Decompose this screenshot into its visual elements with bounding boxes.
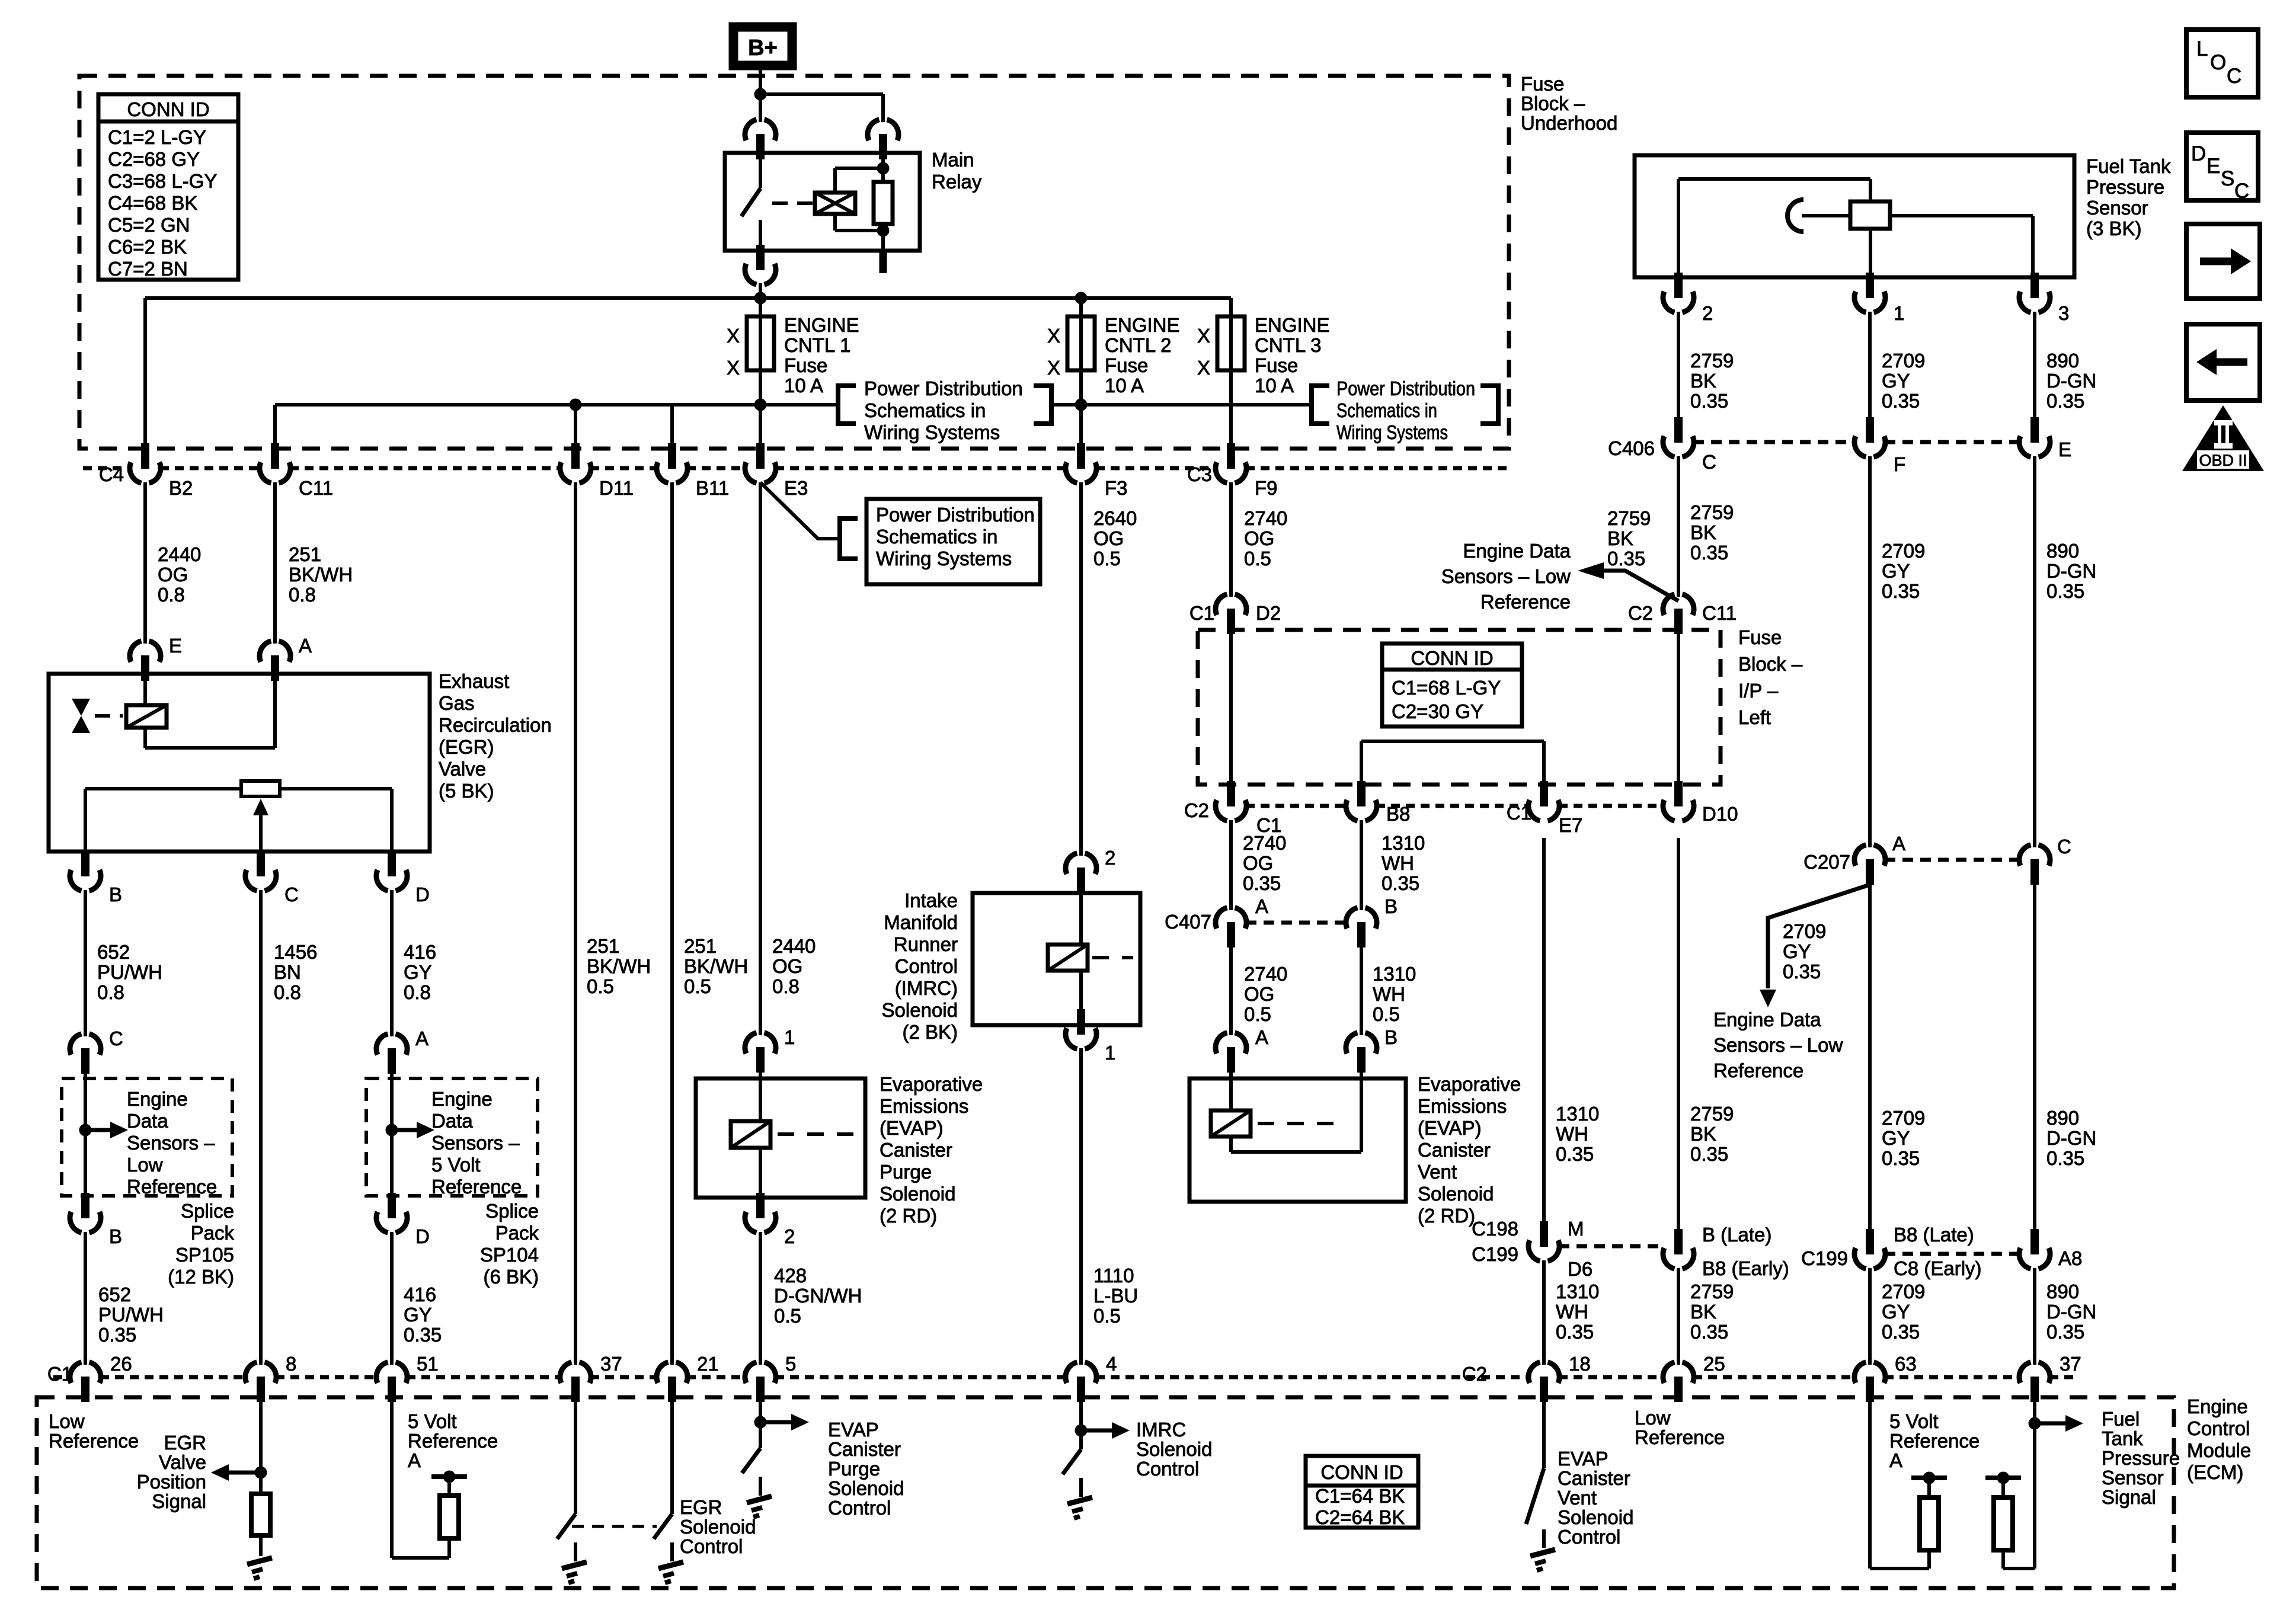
svg-text:D6: D6	[1568, 1258, 1593, 1280]
EGR valve box	[49, 674, 430, 852]
svg-text:C3=68 L-GY: C3=68 L-GY	[108, 170, 217, 192]
junction dot coil top	[877, 162, 890, 175]
svg-text:C: C	[284, 884, 299, 905]
relay pin bar below left	[757, 251, 765, 268]
svg-text:26: 26	[110, 1353, 132, 1375]
svg-text:X: X	[1197, 357, 1210, 379]
ECM resistor top bar (pin 37R)	[2001, 1478, 2005, 1497]
switch EGR solenoid control (21)	[654, 1514, 672, 1539]
svg-text:OG: OG	[158, 564, 188, 585]
fuse block - underhood (dashed outline)	[79, 76, 1509, 449]
wire through splice SP105	[84, 1071, 87, 1196]
junction dot coil bottom	[877, 225, 890, 237]
svg-text:C: C	[2234, 180, 2249, 203]
svg-text:BK: BK	[1690, 1301, 1716, 1323]
wire 1310 WH 0.35 (E7 down)	[1542, 838, 1546, 1224]
wire 2440 OG 0.8	[143, 482, 147, 644]
svg-text:0.35: 0.35	[2046, 390, 2084, 412]
svg-text:0.35: 0.35	[1690, 1143, 1728, 1165]
ground (pin 8)	[247, 1558, 272, 1579]
C406 dashed link	[1693, 440, 1855, 444]
svg-text:Fuse: Fuse	[1255, 354, 1298, 376]
ECM resistor (pin 37R)	[1994, 1497, 2013, 1550]
C199 dashed link	[1885, 1252, 2020, 1256]
svg-text:WH: WH	[1373, 983, 1405, 1005]
svg-text:Valve: Valve	[439, 758, 486, 780]
connector row line (underhood)	[83, 466, 130, 470]
svg-text:C4=68 BK: C4=68 BK	[108, 192, 197, 214]
svg-text:21: 21	[697, 1353, 719, 1375]
connector ECM pin 37 (left)	[560, 1362, 591, 1402]
svg-text:A: A	[1255, 895, 1268, 917]
svg-text:0.35: 0.35	[1882, 1147, 1920, 1169]
fuel tank pressure sensor box	[1635, 155, 2074, 277]
svg-text:B8 (Early): B8 (Early)	[1702, 1257, 1789, 1279]
svg-text:B+: B+	[748, 36, 778, 60]
vent solenoid dashed link	[1258, 1122, 1344, 1125]
C207 dashed link	[1885, 858, 2020, 862]
svg-text:X: X	[1047, 357, 1060, 379]
fuse F3 ENGINE CNTL 3	[1229, 298, 1233, 405]
connector C406 pin C	[1663, 417, 1694, 457]
svg-text:Engine Data: Engine Data	[1463, 540, 1571, 562]
svg-text:0.5: 0.5	[684, 975, 711, 997]
connector pin D (EGR)	[376, 851, 407, 891]
purge solenoid dashed link	[778, 1132, 864, 1136]
sensor internal top wire	[1678, 177, 1870, 181]
svg-text:Fuse: Fuse	[1738, 626, 1782, 648]
connector C407 pin B	[1346, 908, 1377, 948]
svg-text:Fuse: Fuse	[1105, 354, 1148, 376]
svg-text:PU/WH: PU/WH	[98, 1304, 164, 1326]
svg-text:C1=2 L-GY: C1=2 L-GY	[108, 126, 206, 148]
svg-text:Underhood: Underhood	[1521, 112, 1617, 134]
callout bracket (E3)	[840, 518, 858, 559]
legend box DESC	[2186, 133, 2258, 200]
svg-text:E7: E7	[1559, 814, 1582, 836]
svg-text:EGR: EGR	[164, 1432, 206, 1454]
svg-text:416: 416	[404, 941, 436, 963]
svg-text:A: A	[408, 1449, 421, 1471]
svg-text:D-GN: D-GN	[2046, 1127, 2096, 1149]
svg-text:BK/WH: BK/WH	[289, 564, 353, 585]
connector cup relay output	[745, 245, 776, 284]
svg-text:Fuse: Fuse	[1521, 73, 1564, 95]
upper supply bus	[145, 296, 1231, 300]
svg-text:Reference: Reference	[1889, 1430, 1980, 1452]
arrow IMRC control	[1081, 1429, 1113, 1433]
connector pin B (splice SP105 out)	[70, 1193, 101, 1233]
svg-text:Main: Main	[932, 149, 974, 171]
svg-text:652: 652	[97, 941, 130, 963]
svg-text:0.5: 0.5	[1244, 1003, 1271, 1025]
svg-text:A8: A8	[2058, 1247, 2082, 1269]
svg-text:Splice: Splice	[181, 1200, 234, 1222]
wire D2 through I/P	[1229, 632, 1233, 785]
svg-text:2740: 2740	[1244, 507, 1287, 529]
svg-text:37: 37	[2060, 1353, 2081, 1375]
wire 1310 WH 0.35 (to ECM 18)	[1542, 1260, 1546, 1365]
svg-text:2759: 2759	[1690, 1103, 1734, 1125]
svg-text:5 Volt: 5 Volt	[408, 1410, 457, 1432]
svg-text:C1=64 BK: C1=64 BK	[1315, 1485, 1405, 1507]
connector sensor pin 3	[2019, 273, 2050, 312]
connector C2 pin C1 (ip)	[1216, 781, 1246, 821]
connector IMRC pin 1	[1066, 1009, 1096, 1049]
switch EVAP purge (pin 5)	[742, 1448, 760, 1473]
connector C2 pin C11	[1663, 594, 1694, 634]
relay right internal wire	[881, 153, 885, 182]
EGR solenoid element	[126, 705, 167, 728]
svg-text:Low: Low	[1635, 1407, 1671, 1429]
svg-text:GY: GY	[1882, 1301, 1910, 1323]
connector ECM pin 51	[376, 1362, 407, 1402]
svg-text:0.35: 0.35	[1607, 548, 1645, 569]
wire relay output to bus	[759, 283, 762, 316]
svg-text:2709: 2709	[1882, 540, 1925, 562]
svg-text:GY: GY	[1882, 1127, 1910, 1149]
connector pin C (splice SP105)	[70, 1034, 101, 1074]
wire 652 PU/WH 0.35	[84, 1232, 87, 1365]
svg-text:B: B	[1384, 895, 1398, 917]
connector C199 pin A8	[2019, 1229, 2050, 1269]
IMRC solenoid element	[1079, 891, 1083, 945]
svg-text:251: 251	[684, 935, 717, 957]
svg-text:0.35: 0.35	[1882, 1321, 1920, 1343]
connector C1 pin 26	[70, 1362, 101, 1402]
svg-text:(6 BK): (6 BK)	[483, 1266, 539, 1288]
CONN ID table (I/P)	[1382, 644, 1522, 726]
svg-text:Signal: Signal	[152, 1490, 206, 1512]
connector pin D10 (ip)	[1663, 781, 1694, 821]
EVAP vent solenoid box	[1189, 1078, 1406, 1202]
svg-text:L-BU: L-BU	[1093, 1285, 1138, 1307]
callout bracket left (fuse3)	[1312, 386, 1329, 424]
svg-text:1310: 1310	[1373, 963, 1416, 985]
svg-text:4: 4	[1106, 1353, 1117, 1375]
connector C3 pin F9	[1216, 443, 1246, 483]
svg-text:C5=2 GN: C5=2 GN	[108, 214, 190, 236]
connector C4 pin B2	[130, 443, 161, 483]
svg-text:0.8: 0.8	[772, 975, 800, 997]
svg-text:Sensors –: Sensors –	[431, 1132, 520, 1154]
svg-text:37: 37	[600, 1353, 622, 1375]
svg-text:Intake: Intake	[904, 889, 958, 911]
svg-text:Recirculation: Recirculation	[439, 714, 552, 736]
connector C2 pin 18	[1528, 1362, 1559, 1402]
wire 890 D-GN 0.35 (C down)	[2033, 885, 2036, 1232]
svg-text:890: 890	[2046, 540, 2079, 562]
svg-text:C1: C1	[1189, 602, 1214, 624]
ECM resistor top bar (pin 63)	[1927, 1478, 1931, 1497]
svg-text:Schematics in: Schematics in	[876, 526, 997, 548]
svg-text:Control: Control	[828, 1497, 891, 1519]
wire C11 drop	[273, 405, 277, 446]
svg-text:BN: BN	[274, 961, 301, 983]
svg-text:C2=68 GY: C2=68 GY	[108, 148, 200, 170]
wire 2740 OG 0.5 (below C407)	[1229, 944, 1233, 1035]
svg-text:GY: GY	[1783, 940, 1811, 962]
svg-text:Pack: Pack	[191, 1222, 235, 1244]
svg-text:Solenoid: Solenoid	[680, 1516, 756, 1538]
callout line from E3	[760, 482, 840, 539]
svg-text:Engine: Engine	[127, 1088, 188, 1110]
svg-text:0.35: 0.35	[98, 1324, 136, 1346]
svg-text:E: E	[2058, 438, 2071, 460]
svg-text:C198: C198	[1472, 1218, 1518, 1240]
connector sensor pin 1	[1854, 273, 1885, 312]
svg-text:D-GN: D-GN	[2046, 1301, 2096, 1323]
legend box LOC	[2186, 30, 2258, 97]
svg-text:Power Distribution: Power Distribution	[876, 504, 1035, 526]
svg-text:0.5: 0.5	[1093, 1305, 1121, 1327]
svg-text:Engine: Engine	[2187, 1395, 2248, 1417]
svg-text:5 Volt: 5 Volt	[431, 1154, 481, 1176]
svg-text:Control: Control	[680, 1535, 743, 1557]
svg-text:890: 890	[2046, 1107, 2079, 1129]
wire 2709 GY 0.35 (A down)	[1868, 885, 1872, 1232]
svg-text:2759: 2759	[1690, 350, 1734, 372]
svg-text:BK: BK	[1607, 527, 1633, 549]
svg-text:0.35: 0.35	[1382, 872, 1419, 894]
wire ECM pin 4 internal	[1079, 1398, 1083, 1449]
svg-text:(2 RD): (2 RD)	[1418, 1205, 1475, 1227]
svg-text:1310: 1310	[1556, 1103, 1599, 1125]
wire ECM pin 21 internal	[670, 1398, 674, 1514]
svg-text:Wiring Systems: Wiring Systems	[1336, 421, 1448, 443]
svg-text:E3: E3	[784, 477, 808, 499]
svg-text:Tank: Tank	[2102, 1427, 2143, 1449]
legend OBD II triangle	[2182, 405, 2264, 471]
connector ECM pin 37 (right)	[2019, 1362, 2050, 1402]
svg-text:Sensors – Low: Sensors – Low	[1713, 1034, 1843, 1056]
wire E3 drop	[759, 405, 762, 446]
svg-text:0.5: 0.5	[774, 1305, 801, 1327]
connector cup relay pin 1	[745, 120, 776, 159]
svg-text:Reference: Reference	[127, 1176, 217, 1198]
lower fused bus	[275, 403, 838, 406]
svg-text:C1: C1	[47, 1363, 72, 1385]
svg-text:Schematics in: Schematics in	[1336, 399, 1437, 421]
wire ECM pin 18 internal	[1542, 1398, 1546, 1468]
svg-text:Relay: Relay	[932, 171, 982, 193]
svg-text:ENGINE: ENGINE	[1255, 314, 1330, 336]
connector pin C (EGR)	[245, 851, 276, 891]
svg-text:Solenoid: Solenoid	[880, 1183, 955, 1205]
svg-text:2709: 2709	[1882, 1107, 1925, 1129]
svg-text:2740: 2740	[1243, 832, 1286, 854]
junction dot bus at fuse 1	[754, 292, 767, 305]
svg-text:C199: C199	[1472, 1243, 1518, 1265]
svg-text:0.5: 0.5	[587, 975, 614, 997]
svg-text:CONN ID: CONN ID	[1411, 647, 1493, 669]
wire 2709 GY 0.35 (to ECM 63)	[1868, 1268, 1872, 1365]
svg-text:51: 51	[417, 1353, 439, 1375]
relay coil bottom wire	[833, 214, 837, 231]
svg-text:1456: 1456	[274, 941, 317, 963]
svg-text:F3: F3	[1105, 477, 1128, 499]
svg-text:IMRC: IMRC	[1136, 1419, 1186, 1441]
svg-text:Control: Control	[895, 955, 958, 977]
svg-text:C: C	[1702, 451, 1716, 473]
svg-text:OG: OG	[772, 955, 802, 977]
svg-text:C2: C2	[1462, 1363, 1487, 1385]
svg-text:OBD II: OBD II	[2199, 452, 2247, 469]
svg-text:0.8: 0.8	[158, 584, 185, 606]
connector pin A (EGR)	[260, 641, 290, 681]
EGR solenoid wires	[143, 678, 147, 705]
svg-text:0.35: 0.35	[1690, 542, 1728, 564]
svg-text:D11: D11	[599, 477, 634, 499]
relay pin stub below right	[880, 251, 887, 273]
svg-text:25: 25	[1703, 1353, 1725, 1375]
svg-text:0.8: 0.8	[404, 981, 431, 1003]
svg-text:C: C	[2227, 65, 2241, 88]
svg-text:B2: B2	[169, 477, 193, 499]
svg-text:B: B	[1384, 1026, 1398, 1048]
svg-text:Wiring Systems: Wiring Systems	[864, 421, 1000, 443]
svg-text:0.8: 0.8	[289, 584, 316, 606]
svg-text:A: A	[1889, 1449, 1902, 1471]
svg-text:Exhaust: Exhaust	[439, 670, 509, 692]
ECM box (dashed)	[37, 1397, 2174, 1588]
relay box Main Relay	[725, 153, 920, 251]
svg-text:Low: Low	[127, 1154, 163, 1176]
svg-text:0.35: 0.35	[404, 1324, 442, 1346]
svg-text:BK/WH: BK/WH	[684, 955, 748, 977]
svg-text:Engine Data: Engine Data	[1713, 1009, 1821, 1030]
svg-text:Pack: Pack	[495, 1222, 539, 1244]
wire resistor to ground (pin 8)	[259, 1535, 263, 1556]
sensor port symbol	[1787, 200, 1803, 232]
svg-text:Reference: Reference	[1713, 1060, 1803, 1081]
svg-text:EVAP: EVAP	[828, 1419, 879, 1441]
wire B+ to relay	[759, 68, 762, 122]
svg-text:Reference: Reference	[1635, 1426, 1725, 1448]
vent solenoid element	[1229, 1070, 1233, 1110]
svg-text:0.8: 0.8	[97, 981, 124, 1003]
junction dot lower bus D11	[570, 399, 582, 411]
purge solenoid element	[759, 1070, 762, 1121]
wire 652 PU/WH 0.8	[84, 890, 87, 1036]
wire 251 BK/WH 0.8	[273, 482, 277, 644]
svg-text:Solenoid: Solenoid	[1136, 1438, 1212, 1460]
svg-text:Valve: Valve	[159, 1451, 206, 1473]
svg-text:5 Volt: 5 Volt	[1889, 1410, 1939, 1432]
svg-text:F: F	[1894, 453, 1905, 475]
svg-text:Manifold: Manifold	[884, 911, 958, 933]
svg-text:BK/WH: BK/WH	[587, 955, 651, 977]
svg-text:(3 BK): (3 BK)	[2086, 217, 2142, 239]
connector C198/C199 pin M/D6	[1528, 1221, 1559, 1261]
wire bus drop to C4	[143, 298, 147, 446]
svg-text:2: 2	[1702, 302, 1713, 324]
svg-text:0.5: 0.5	[1093, 548, 1121, 569]
switch IMRC (pin 4)	[1063, 1449, 1081, 1474]
wire 416 GY 0.8	[390, 890, 394, 1036]
svg-text:0.35: 0.35	[2046, 1321, 2084, 1343]
connector vent solenoid pin A	[1216, 1033, 1246, 1073]
connector pin D11	[560, 443, 591, 483]
svg-text:A: A	[1892, 833, 1905, 854]
svg-text:251: 251	[587, 935, 619, 957]
connector pin E (EGR)	[130, 641, 161, 681]
svg-text:BK: BK	[1690, 1123, 1716, 1145]
svg-text:A: A	[1255, 1026, 1268, 1048]
svg-text:890: 890	[2046, 1281, 2079, 1302]
svg-text:GY: GY	[404, 1304, 432, 1326]
svg-text:Pressure: Pressure	[2086, 176, 2164, 198]
svg-text:0.35: 0.35	[1690, 1321, 1728, 1343]
svg-text:1: 1	[1894, 302, 1904, 324]
wire 416 GY 0.35	[390, 1232, 394, 1365]
svg-text:2440: 2440	[772, 935, 816, 957]
svg-text:EGR: EGR	[680, 1496, 722, 1518]
svg-text:Solenoid: Solenoid	[882, 999, 958, 1021]
svg-text:Solenoid: Solenoid	[1418, 1183, 1494, 1205]
svg-text:CONN ID: CONN ID	[1320, 1461, 1403, 1483]
svg-text:Low: Low	[49, 1410, 85, 1432]
svg-text:CNTL 2: CNTL 2	[1105, 334, 1171, 356]
svg-text:2: 2	[1105, 847, 1115, 869]
switch EGR solenoid control (37)	[557, 1514, 575, 1539]
svg-text:C11: C11	[299, 477, 333, 499]
svg-text:D: D	[2191, 142, 2206, 165]
svg-text:Vent: Vent	[1558, 1487, 1597, 1509]
svg-text:CNTL 1: CNTL 1	[784, 334, 850, 356]
wire 1310 WH 0.5	[1360, 944, 1363, 1035]
svg-text:ENGINE: ENGINE	[1105, 314, 1180, 336]
connector ECM pin 63	[1854, 1362, 1885, 1402]
svg-text:0.8: 0.8	[274, 981, 301, 1003]
svg-text:1310: 1310	[1556, 1281, 1599, 1302]
connector C207 pin C	[2019, 845, 2050, 885]
connector pin E3	[745, 443, 776, 483]
svg-text:C8 (Early): C8 (Early)	[1894, 1257, 1982, 1279]
svg-text:D: D	[415, 884, 430, 905]
wire ECM pin 37L internal	[574, 1398, 577, 1514]
connector pin B (EGR)	[70, 851, 101, 891]
connector pin D (splice SP104 out)	[376, 1193, 407, 1233]
svg-text:Reference: Reference	[431, 1176, 522, 1198]
junction dot at B+ branch	[754, 88, 767, 101]
svg-text:C: C	[2057, 836, 2071, 857]
arrow engine data sensors low ref	[1603, 571, 1678, 601]
wire F3 drop	[1079, 405, 1083, 446]
svg-text:OG: OG	[1243, 852, 1273, 874]
svg-text:0.35: 0.35	[1690, 390, 1728, 412]
svg-text:2709: 2709	[1783, 920, 1826, 942]
svg-text:SP104: SP104	[480, 1244, 539, 1266]
svg-text:2759: 2759	[1690, 501, 1734, 523]
svg-text:SP105: SP105	[175, 1244, 234, 1266]
EVAP purge solenoid box	[696, 1078, 865, 1198]
svg-text:Canister: Canister	[828, 1438, 901, 1460]
EGR position sensor element	[241, 781, 280, 796]
svg-text:1: 1	[784, 1026, 795, 1048]
wire 2740 OG 0.5 (F9)	[1229, 482, 1233, 597]
svg-text:D-GN: D-GN	[2046, 560, 2096, 582]
svg-text:C: C	[109, 1028, 123, 1049]
svg-text:D10: D10	[1702, 803, 1738, 825]
wire ECM pin 37R internal	[2033, 1398, 2036, 1569]
wire B8-E7 link in I/P	[1360, 741, 1363, 785]
svg-text:0.5: 0.5	[1373, 1003, 1400, 1025]
svg-text:5: 5	[785, 1353, 796, 1375]
connector pin F	[1854, 417, 1885, 457]
junction dot pin 8	[255, 1467, 267, 1479]
switch EVAP vent (pin 18)	[1526, 1468, 1544, 1524]
